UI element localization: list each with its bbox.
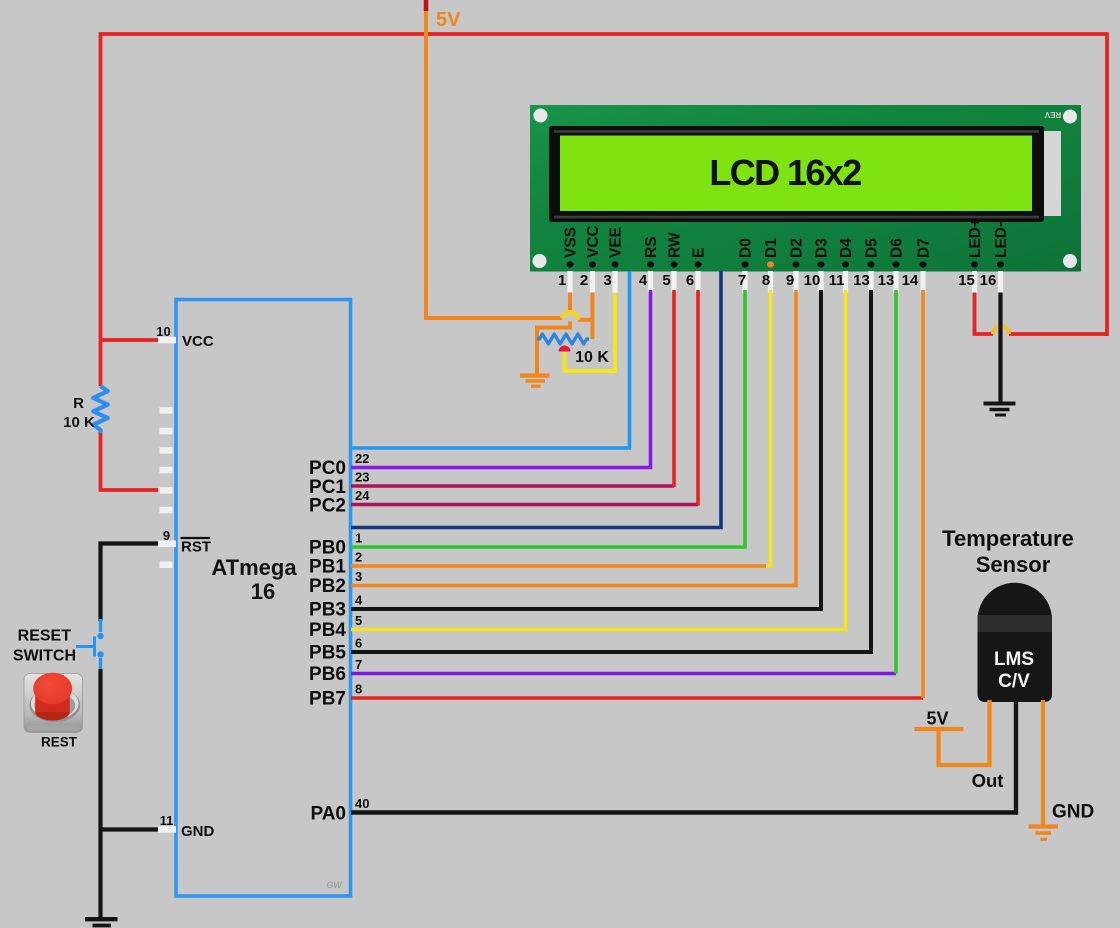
svg-text:PB3: PB3 (309, 600, 346, 621)
svg-text:RST: RST (181, 539, 211, 556)
svg-text:LCD 16x2: LCD 16x2 (709, 152, 861, 193)
unconnected stub (160, 507, 173, 514)
wire orange 5V vertical from top (424, 9, 428, 318)
svg-text:PC0: PC0 (309, 458, 346, 479)
wire PC1 maroon to LCD RW pin5 (309, 290, 674, 498)
wire PB0 green to LCD D0 pin7 (309, 290, 745, 559)
wire 5V red rail top horizontal (101, 32, 1108, 36)
LCD module board (530, 105, 1081, 272)
svg-text:9: 9 (786, 272, 794, 289)
potentiometer wiring: wire orange VSS pin1 down with hop (537, 290, 570, 375)
ground orange sensor (1029, 827, 1059, 840)
ground for LED- (984, 404, 1016, 416)
wire PB4 yellow to LCD D4 pin11 (309, 290, 845, 641)
LCD pin 10 D3 (804, 238, 831, 293)
svg-text:40: 40 (355, 796, 369, 811)
svg-text:16: 16 (980, 272, 997, 289)
svg-text:VSS: VSS (563, 227, 580, 258)
svg-text:14: 14 (902, 272, 919, 289)
label 10 K (63, 414, 95, 431)
svg-text:3: 3 (355, 569, 362, 584)
svg-text:2: 2 (580, 272, 588, 289)
stub with red wire (160, 487, 173, 494)
ground bottom left (85, 919, 118, 925)
svg-text:ATmega: ATmega (211, 555, 297, 580)
wire navy to LCD column between 6 and 7 (351, 271, 721, 528)
LCD pin 9 D2 (786, 238, 806, 292)
svg-text:Out: Out (972, 770, 1004, 791)
svg-text:4: 4 (355, 593, 363, 608)
wire orange 5V feed to pot (424, 318, 593, 320)
svg-text:GW: GW (326, 880, 343, 890)
unconnected stub (160, 428, 173, 435)
ATmega16 U1 body (176, 300, 351, 897)
svg-text:11: 11 (829, 272, 845, 289)
label ATmega (211, 555, 297, 580)
LCD pin 16 LED- (980, 218, 1010, 293)
svg-text:C/V: C/V (998, 671, 1030, 692)
LCD pin 11 D4 (829, 238, 855, 293)
wire PB6 purple to LCD D6 pin13 green (309, 290, 896, 685)
LCD screw bottom-left (533, 254, 547, 268)
LCD screw bottom-right (1063, 254, 1077, 268)
svg-text:D1: D1 (763, 238, 780, 258)
5V bar symbol (915, 727, 964, 731)
pin 9 RST stub (158, 528, 211, 556)
LCD screw top-left (534, 109, 548, 123)
LCD pin 8 D1 (762, 238, 780, 293)
svg-text:PC2: PC2 (309, 496, 346, 517)
svg-text:2: 2 (355, 550, 362, 565)
LCD pin 3 VEE (603, 227, 624, 293)
svg-text:8: 8 (355, 682, 362, 697)
label Temperature Sensor (942, 526, 1074, 577)
svg-text:6: 6 (355, 636, 362, 651)
label REST (41, 735, 78, 750)
svg-text:7: 7 (355, 657, 362, 672)
node 5V top stub dark red (424, 0, 429, 11)
LCD REV silkscreen (1044, 110, 1061, 119)
svg-text:13: 13 (853, 272, 870, 289)
wire PB7 red to LCD D7 pin14 orange (309, 290, 923, 710)
pin 10 VCC stub (156, 324, 214, 350)
svg-text:R: R (73, 395, 84, 412)
wire black branch to GND pin 11 (101, 827, 159, 831)
svg-text:D3: D3 (814, 238, 831, 258)
svg-text:1: 1 (355, 531, 362, 546)
svg-text:LMS: LMS (994, 649, 1034, 670)
wire red branch to ATmega VCC pin 10 (101, 338, 159, 342)
svg-text:GND: GND (1052, 802, 1094, 823)
svg-text:5: 5 (355, 613, 362, 628)
wire red rail left vertical to VCC and resistor (99, 32, 103, 386)
potentiometer wiper red dot (559, 346, 571, 352)
svg-text:1: 1 (558, 272, 566, 289)
svg-text:5V: 5V (436, 9, 461, 31)
svg-text:VEE: VEE (608, 227, 625, 258)
svg-text:E: E (691, 248, 708, 258)
svg-text:LED+: LED+ (967, 218, 984, 258)
svg-text:LED−: LED− (993, 218, 1010, 258)
svg-text:PB2: PB2 (309, 576, 346, 597)
svg-text:8: 8 (762, 272, 770, 289)
svg-text:D5: D5 (864, 238, 881, 258)
svg-text:PB0: PB0 (309, 538, 346, 559)
label 5V sensor (926, 709, 948, 729)
wire PC2 maroon to LCD E pin6 (309, 290, 698, 517)
LCD green screen (560, 136, 1032, 212)
svg-text:RESET: RESET (18, 628, 72, 645)
svg-text:RW: RW (667, 232, 684, 258)
svg-text:PB7: PB7 (309, 689, 346, 710)
svg-text:10 K: 10 K (575, 349, 609, 366)
wire PC0 purple to LCD RS pin4 (309, 290, 650, 479)
wire PA0 black to sensor out (310, 700, 1016, 825)
hop arc pin1 over 5V feed (562, 312, 578, 320)
label Out (972, 770, 1004, 791)
svg-text:PB1: PB1 (309, 557, 346, 578)
resistor R1 10K body (93, 386, 108, 433)
svg-text:6: 6 (686, 272, 694, 289)
svg-text:D0: D0 (738, 238, 755, 258)
svg-text:15: 15 (958, 272, 975, 289)
svg-text:22: 22 (355, 451, 369, 466)
LCD pin 13 D6 (878, 238, 906, 293)
svg-text:4: 4 (639, 272, 648, 289)
wire black LED- to ground (998, 292, 1002, 402)
svg-text:RS: RS (643, 236, 660, 258)
svg-text:10: 10 (804, 272, 821, 289)
unconnected stub below RST (160, 562, 173, 569)
pin 11 GND stub (158, 813, 215, 840)
svg-text:GND: GND (181, 823, 215, 840)
wire red below resistor (101, 433, 159, 490)
LCD screw top-right (1063, 110, 1077, 124)
watermark GW (326, 880, 343, 890)
unconnected stub (160, 467, 173, 474)
svg-text:D7: D7 (916, 238, 933, 258)
svg-text:3: 3 (603, 272, 611, 289)
svg-text:13: 13 (878, 272, 895, 289)
svg-text:PA0: PA0 (310, 804, 346, 825)
svg-text:PB5: PB5 (309, 643, 346, 664)
svg-text:D4: D4 (838, 238, 855, 258)
label 16 (251, 579, 275, 604)
LCD pin 12 D5 (853, 238, 880, 293)
potentiometer RV1 10K body (537, 334, 589, 344)
svg-text:16: 16 (251, 579, 275, 604)
switch SW1 symbol (76, 619, 104, 670)
wire PB2 orange to LCD D2 pin9 (309, 290, 796, 597)
svg-text:SWITCH: SWITCH (13, 648, 76, 665)
wire PB3 black to LCD D3 pin10 (309, 290, 821, 621)
hop arc over LED- wire (993, 326, 1009, 334)
wire black switch down to ground (98, 669, 102, 918)
LCD connector tab gray (1043, 131, 1061, 216)
wire orange sensor Vcc lead to 5V (939, 700, 990, 765)
svg-text:9: 9 (163, 528, 170, 543)
svg-text:10: 10 (156, 324, 170, 339)
LCD screen black bezel (549, 126, 1044, 222)
LCD pin 2 VCC (580, 225, 602, 292)
LCD pin 15 LED+ (958, 218, 984, 293)
wire orange sensor GND lead (1041, 700, 1045, 825)
wire light blue to LCD E column (351, 271, 630, 448)
label GND sensor (1052, 802, 1094, 823)
LCD pin 4 RS (639, 236, 660, 292)
label 10 K pot (575, 349, 609, 366)
label 5V top (436, 9, 461, 31)
svg-text:5: 5 (662, 272, 670, 289)
label LCD 16x2 (709, 152, 861, 193)
label RESET SWITCH (13, 628, 76, 665)
svg-text:VCC: VCC (585, 225, 602, 258)
wire red LED+ horizontal with hop (975, 292, 1108, 334)
wire black RST to switch (101, 544, 159, 622)
wire PB5 black to LCD D5 pin12 (309, 290, 871, 664)
svg-text:REV: REV (1044, 110, 1061, 119)
ground orange for pot (520, 376, 550, 387)
svg-text:PB6: PB6 (309, 664, 346, 685)
svg-text:10 K: 10 K (63, 414, 95, 431)
label R (73, 395, 84, 412)
wire orange VCC pin2 down to pot right (591, 290, 595, 339)
svg-text:REST: REST (41, 735, 78, 750)
wire PB1 orange to LCD D1 pin8 yellow (309, 290, 770, 578)
svg-text:23: 23 (355, 470, 369, 485)
push button graphic (24, 673, 83, 733)
svg-text:Temperature: Temperature (942, 526, 1074, 551)
svg-text:5V: 5V (926, 709, 948, 729)
svg-text:7: 7 (738, 272, 746, 289)
LCD pin 6 E (686, 248, 708, 293)
label LMS C/V (994, 649, 1034, 692)
unconnected stub (160, 447, 173, 454)
LCD pin 1 VSS (558, 227, 580, 293)
svg-text:VCC: VCC (182, 333, 214, 350)
LCD pin 5 RW (662, 232, 683, 292)
wire yellow wiper to VEE pin3 (565, 290, 616, 371)
svg-text:D6: D6 (889, 238, 906, 258)
svg-text:PB4: PB4 (309, 620, 346, 641)
unconnected stub row left (160, 407, 173, 414)
wire red rail right vertical (1105, 32, 1109, 336)
LCD pin 14 D7 (902, 238, 933, 292)
LCD pin 7 D0 (738, 238, 755, 292)
svg-text:11: 11 (160, 813, 174, 828)
svg-text:D2: D2 (789, 238, 806, 258)
svg-text:Sensor: Sensor (976, 552, 1051, 577)
temperature sensor U2 body (978, 583, 1053, 702)
svg-text:24: 24 (355, 488, 370, 503)
